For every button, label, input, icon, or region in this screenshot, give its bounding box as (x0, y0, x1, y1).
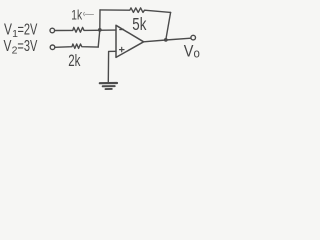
svg-text:=3V: =3V (17, 37, 37, 54)
svg-text:2k: 2k (68, 52, 81, 71)
svg-text:Vo: Vo (184, 42, 200, 60)
svg-text:1k: 1k (71, 7, 82, 23)
svg-text:5k: 5k (132, 15, 146, 34)
svg-text:=2V: =2V (18, 21, 38, 38)
